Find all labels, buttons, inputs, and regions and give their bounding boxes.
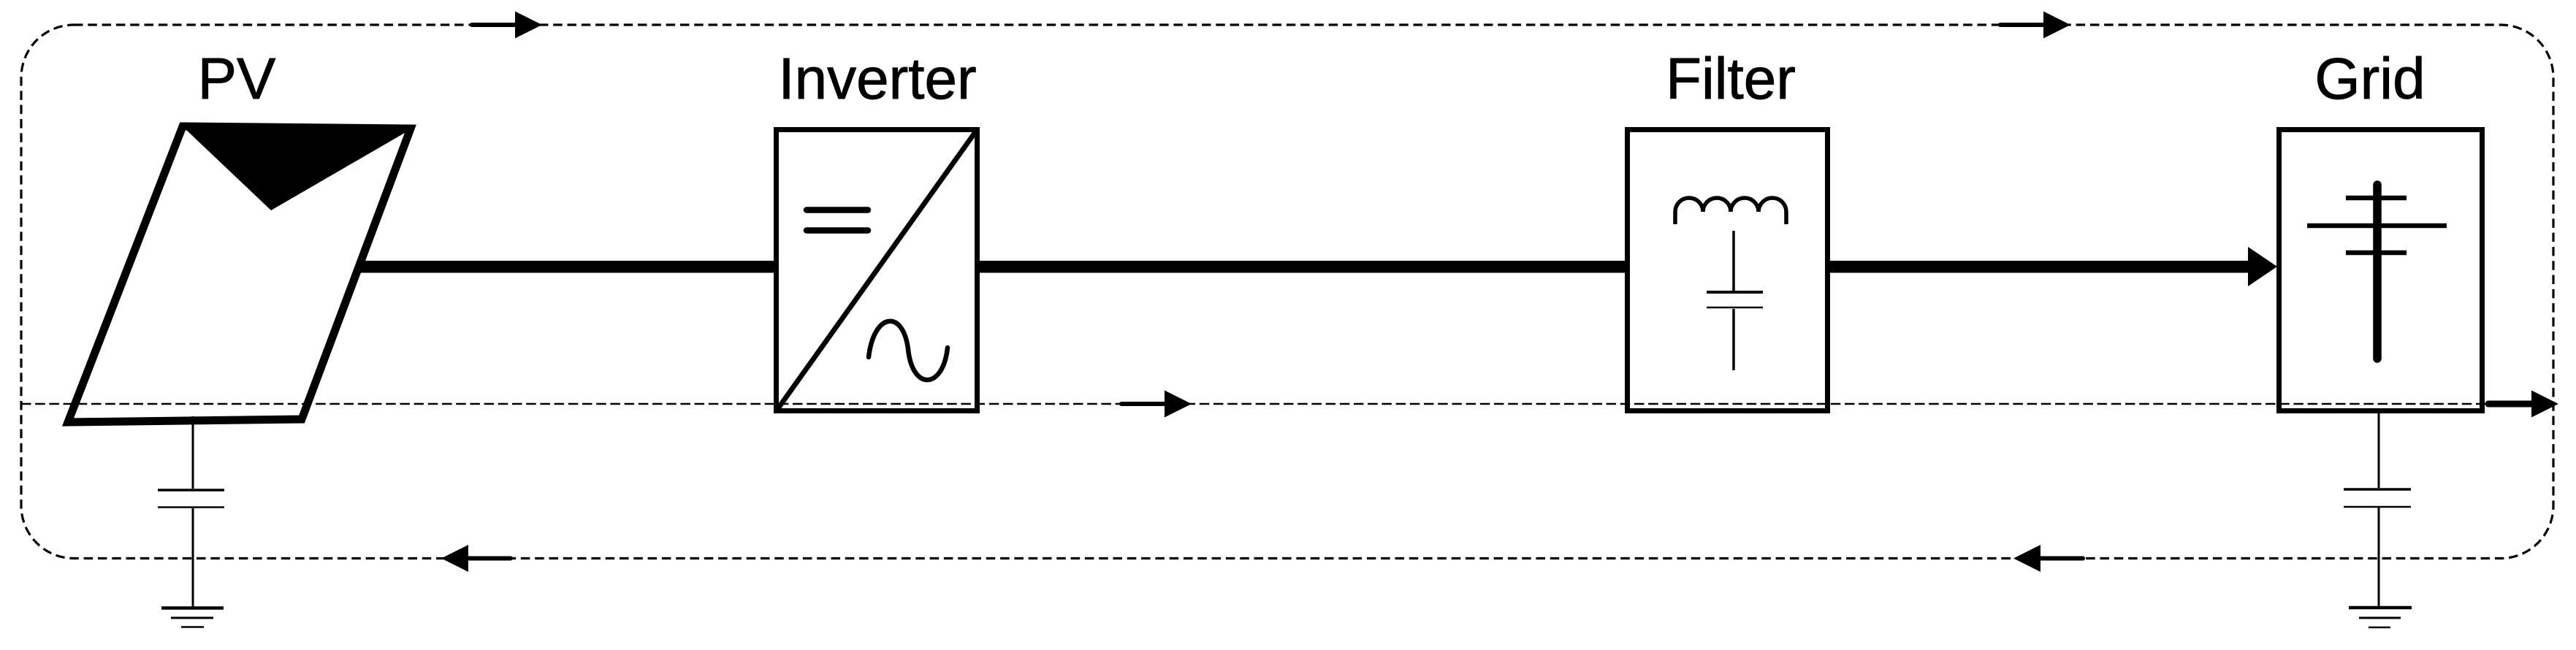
grid lead wire down <box>2378 413 2380 488</box>
svg-text:Grid: Grid <box>2314 46 2425 111</box>
filter inductor L <box>1675 198 1786 224</box>
svg-text:PV: PV <box>198 46 276 111</box>
grid box <box>2279 130 2482 411</box>
PV panel cell triangle <box>185 129 408 210</box>
inverter AC sine <box>869 321 948 380</box>
parasitic capacitor C_grid <box>2344 489 2411 507</box>
current arrow top-right <box>2000 12 2070 39</box>
grid pylon symbol <box>2307 185 2447 359</box>
current arrow top-left <box>472 12 542 39</box>
filter box <box>1628 130 1828 411</box>
ground PV <box>161 608 224 627</box>
wire inverter to filter <box>980 261 1627 273</box>
ground-path dashed line (common-mode path) <box>21 403 2553 405</box>
wire capacitor to ground (grid side) <box>2378 508 2380 607</box>
wire arrowhead into grid <box>2248 247 2277 286</box>
inverter diagonal <box>777 130 977 410</box>
PV lead wire down <box>192 416 194 489</box>
current arrow bottom-left <box>441 545 511 572</box>
svg-text:Filter: Filter <box>1666 46 1796 111</box>
inverter DC symbol <box>807 210 868 231</box>
svg-text:Inverter: Inverter <box>778 46 976 111</box>
wire PV to inverter <box>357 261 776 273</box>
current arrow mid-line <box>1121 391 1192 418</box>
current arrow bottom-right <box>2013 545 2083 572</box>
wire filter to grid <box>1828 261 2250 273</box>
filter capacitor C <box>1707 231 1763 370</box>
current arrow grid exit <box>2488 391 2558 418</box>
parasitic capacitor C_PV <box>158 490 224 508</box>
wire capacitor to ground (PV side) <box>192 508 194 607</box>
ground grid <box>2349 608 2412 627</box>
inverter U1 box <box>777 130 978 411</box>
PV panel <box>68 126 411 422</box>
